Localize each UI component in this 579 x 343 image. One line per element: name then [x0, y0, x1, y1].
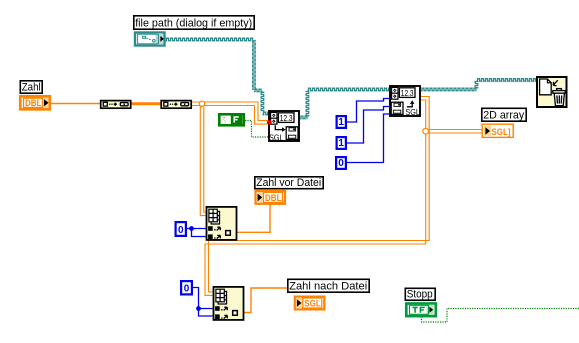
svg-text:12.3: 12.3 [280, 113, 293, 123]
label: 2D array [482, 108, 526, 121]
node: 2D array wire junction at Read VI output [423, 128, 429, 134]
function: Build Array 1 (scalar to 1D) [101, 101, 131, 109]
node: blue wire junction at Index Array 1 [189, 226, 194, 231]
control: Stopp, TF boolean control terminal [406, 304, 436, 317]
wire: constant 0 to Index Array 2 index inputs (blue) [193, 288, 213, 317]
svg-text:0: 0 [338, 158, 344, 169]
svg-text:1: 1 [338, 138, 344, 149]
label: Zahl vor Datei [255, 177, 323, 189]
label: file path (dialog if empty) [134, 16, 254, 30]
wire: Stopp boolean to right edge (green dotted) [422, 309, 579, 323]
wire: constant 1 (cols) to Read VI input (blue) [347, 107, 389, 144]
wire: 2D array from Build Array 2 to junction and Write VI (orange double) [192, 102, 269, 124]
svg-text:SGL: SGL [304, 298, 321, 309]
svg-text:0: 0 [184, 284, 190, 295]
svg-text:DBL: DBL [265, 193, 282, 204]
wire: Read VI path out to close/delete-file icon (teal path wire) [421, 79, 536, 91]
sub-VI: Write SGL File (U1) [269, 111, 299, 142]
svg-text:2D array: 2D array [483, 109, 524, 121]
control: Zahl, DBL numeric control terminal [20, 96, 50, 109]
constant: boolean False (append to file?) [219, 114, 243, 125]
svg-text:SGL: SGL [269, 133, 284, 142]
svg-text:Zahl: Zahl [22, 81, 41, 93]
svg-text:1: 1 [338, 117, 344, 128]
wire: constant 1 (rows) to Read VI input (blue) [347, 99, 389, 123]
wire: file path to Write-SGL-File VI (teal path wire) [166, 38, 269, 115]
wire: Index Array 2 output to Zahl nach Datei indicator (orange) [244, 288, 288, 313]
coercion dot at Write VI array input (red) [267, 120, 272, 125]
sub-VI: close/delete file icon (top right) [537, 77, 567, 107]
indicator: 2D array, [SGL] array indicator terminal [482, 124, 513, 138]
label: Stopp [405, 288, 435, 300]
svg-text:DBL: DBL [25, 98, 42, 109]
constant: numeric 1 (number of rows) [337, 116, 346, 128]
function: Index Array 1 (element before write) [207, 207, 237, 240]
function: Index Array 2 (element after read) [214, 287, 244, 320]
sub-VI: Read SGL File (U2) [390, 86, 420, 117]
constant: numeric 0 (index for Index Array 2) [181, 281, 192, 295]
wire: boolean F constant to Write VI append input (green dotted) [245, 121, 268, 138]
wire: Write VI path out to Read-SGL-File VI (teal path wire) [300, 88, 389, 119]
wire: Read VI 2D array output to junction, 2D array indicator and Index Array 2 (orange double) [205, 97, 482, 296]
node: 2D array wire junction near Build Array output [199, 101, 204, 106]
constant: numeric 1 (number of columns) [337, 137, 346, 149]
svg-text:0: 0 [178, 225, 184, 236]
wire: Zahl DBL scalar to Build Array 1 (orange) [51, 103, 100, 105]
wire: constant 0 to Index Array 1 index inputs (blue) [187, 229, 206, 237]
wire: Index Array 1 output to Zahl vor Datei indicator (orange) [237, 204, 270, 232]
svg-text:Zahl nach Datei: Zahl nach Datei [289, 280, 367, 292]
indicator: Zahl vor Datei, DBL numeric indicator terminal [256, 191, 286, 204]
svg-text:SGL]: SGL] [492, 127, 511, 138]
svg-text:file path (dialog if empty): file path (dialog if empty) [135, 17, 252, 29]
svg-text:Stopp: Stopp [407, 288, 433, 300]
indicator: Zahl nach Datei, SGL numeric indicator terminal [295, 297, 325, 310]
svg-text:SGL: SGL [405, 108, 420, 117]
svg-text:12.3: 12.3 [401, 88, 414, 98]
wire: constant 0 to Read VI input (blue) [347, 114, 389, 163]
label: Zahl nach Datei [288, 279, 369, 292]
wire: 1D array between Build Array nodes (thick orange) [132, 102, 161, 105]
wire: 2D array junction down to Index Array 1 (orange double) [200, 106, 205, 216]
control: file path (dialog if empty), path control terminal [135, 33, 165, 46]
svg-text:Zahl vor Datei: Zahl vor Datei [256, 177, 321, 189]
function: Build Array 2 (1D to 2D) [161, 101, 191, 109]
constant: numeric 0 (start of read offset) [336, 157, 346, 169]
label: Zahl [20, 81, 42, 94]
constant: numeric 0 (index for Index Array 1) [176, 222, 186, 236]
node: blue wire junction at Index Array 2 [196, 306, 201, 311]
